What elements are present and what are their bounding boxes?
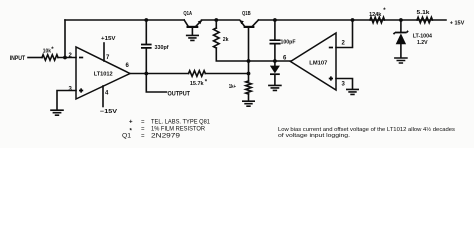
svg-text:5.1k: 5.1k [417,10,431,16]
minus symbol U1 [79,57,83,59]
ground (LT1004) [395,58,407,63]
wire + input to ground [57,91,76,110]
svg-text:330pf: 330pf [155,45,169,51]
svg-text:LM107: LM107 [309,60,328,66]
node top rail dot at C1 [144,18,148,22]
wire Q1A base lead [191,28,193,35]
svg-text:124k: 124k [369,12,382,18]
node dot base/15.7k [247,72,251,76]
svg-text:15.7k: 15.7k [190,81,205,87]
ground (Q1A base) [187,35,199,40]
ground (op-amp + input) [51,110,63,115]
wire feedback vertical [64,20,66,58]
wire op-amp output [130,73,189,75]
ground (1k) [243,101,254,106]
capacitor C2 100pF [274,20,276,40]
resistor R3 15.7k* [189,71,206,77]
wire pin 2 to top rail [336,20,353,48]
resistor R1 10k* [42,55,58,61]
zener D2 LT-1004 [400,20,402,32]
capacitor C1 330pF [145,20,147,44]
svg-text:LT1012: LT1012 [94,72,114,78]
wire 2k bottom to A2 output rail [216,48,290,61]
node output junction dot [144,72,148,76]
svg-text:=: = [141,119,145,126]
plus symbol U2 [329,76,333,80]
svg-text:Q1B: Q1B [242,11,251,17]
wire input to R1 [28,57,42,59]
wire top rail right segment [258,19,446,21]
resistor R5 124k* [370,17,385,23]
ground (D1) [269,85,281,90]
svg-text:+: + [129,119,133,126]
svg-text:−15V: −15V [100,109,117,115]
wire R1 to op-amp inverting input [58,57,76,59]
resistor R4 1k+ [246,81,252,94]
op-amp U2 LM107 [291,33,337,90]
svg-text:+ 15V: + 15V [450,20,465,26]
svg-text:1k+: 1k+ [229,84,237,90]
ground (LM107 pin 3) [347,89,358,94]
wire OUTPUT branch [146,74,166,93]
svg-text:Low bias current and offset vo: Low bias current and offset voltage of t… [278,126,455,133]
wire emitters rail Q1A-Q1B [202,19,240,21]
svg-text:1% FILM RESISTOR: 1% FILM RESISTOR [151,126,206,133]
svg-text:2k: 2k [223,37,229,43]
wire 15.7k to Q1B base node [205,73,248,75]
diode D1 [274,61,276,66]
svg-text:OUTPUT: OUTPUT [168,90,191,97]
node dot A2 rail / diode [273,59,277,63]
svg-text:=: = [141,126,145,133]
node dot 2k top [214,18,218,22]
wire top feedback rail left segment [65,19,184,21]
node dot 124k/LT1004 [399,18,403,22]
svg-text:INPUT: INPUT [10,56,26,62]
pin 7 lead [103,43,105,61]
resistor R2 2k [215,20,217,28]
svg-text:Q1A: Q1A [183,11,192,17]
resistor R6 5.1k [417,17,433,23]
svg-text:+15V: +15V [101,36,116,42]
wire Q1B base down [248,28,250,81]
node summing junction dot [63,56,67,60]
plus symbol U1 [79,88,83,92]
op-amp U1 LT1012 [76,47,130,99]
svg-text:of voltage input logging.: of voltage input logging. [278,133,350,139]
svg-text:Q1: Q1 [122,133,132,140]
svg-text:100pF: 100pF [281,40,296,46]
node dot base/A2 rail [247,59,251,63]
minus symbol U2 [329,47,333,49]
wire pin 3 to ground [336,79,353,89]
node dot 100pF top [273,18,277,22]
svg-text:=: = [141,133,145,140]
svg-text:1.2V: 1.2V [417,40,428,46]
svg-text:TEL. LABS. TYPE Q81: TEL. LABS. TYPE Q81 [151,119,211,126]
svg-text:LT-1004: LT-1004 [413,33,433,39]
node dot pin2/top rail [351,18,355,22]
pin 4 lead [102,86,104,107]
svg-text:2N2979: 2N2979 [151,133,181,140]
